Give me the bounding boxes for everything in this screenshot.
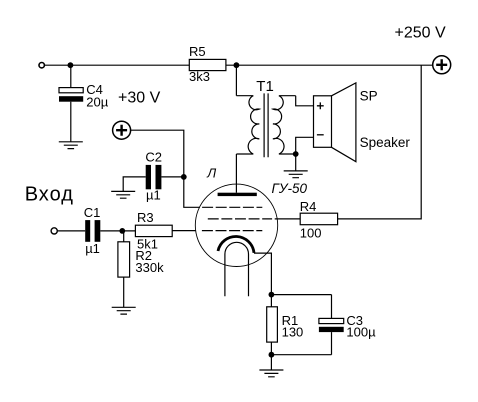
ground (cathode) — [259, 370, 283, 377]
node secondary/ground — [293, 151, 299, 157]
speaker SP body — [314, 96, 332, 148]
ground (C4) — [59, 142, 83, 149]
anode plate — [218, 193, 257, 196]
resistor R5 — [189, 59, 226, 70]
speaker horn — [332, 83, 356, 162]
wire secondary bottom node — [296, 137, 314, 154]
wire to ground (cathode) — [270, 355, 272, 370]
speaker - mark — [317, 134, 324, 136]
svg-text:Speaker: Speaker — [360, 135, 411, 150]
terminal +30V — [113, 121, 131, 139]
svg-text:Л: Л — [206, 165, 216, 180]
wire C4 branch — [70, 65, 72, 87]
wire secondary top to speaker + — [296, 96, 314, 106]
node C2 / grid1 — [181, 174, 187, 180]
svg-text:+30 V: +30 V — [118, 90, 161, 107]
svg-text:R5: R5 — [189, 44, 206, 59]
wire input to C1 — [58, 230, 86, 232]
svg-text:µ1: µ1 — [146, 188, 161, 203]
svg-text:20µ: 20µ — [86, 95, 108, 110]
wire grid2 to R4 — [275, 218, 301, 220]
heater filament — [225, 242, 249, 296]
speaker + mark — [317, 102, 324, 109]
terminal input — [51, 228, 57, 234]
svg-text:T1: T1 — [256, 78, 274, 95]
transformer T1 secondary winding — [273, 96, 296, 154]
grid row 3 (dashed) — [202, 230, 262, 232]
wire rail to primary — [235, 65, 237, 96]
wire cathode node to C3 — [271, 294, 331, 296]
grid row 1 (dashed) — [202, 206, 262, 208]
wire anode lead — [235, 154, 237, 193]
svg-text:330k: 330k — [135, 260, 164, 275]
capacitor C3 (electrolytic) — [331, 295, 333, 319]
terminal input-left (top rail left) — [39, 62, 44, 67]
node R1/C3 bottom — [269, 352, 275, 358]
wire C2 left to ground — [123, 177, 146, 192]
svg-text:R3: R3 — [137, 210, 154, 225]
node C1/R2/R3 — [119, 228, 125, 234]
wire C1 to R3 — [100, 230, 135, 232]
ground (C2) — [111, 191, 135, 198]
wire cathode lead — [254, 253, 271, 295]
wire top rail left segment — [45, 64, 190, 66]
cathode arc — [218, 236, 254, 252]
wire C4 to ground — [70, 102, 72, 142]
node cathode/R1/C3 top — [269, 292, 275, 298]
svg-text:100: 100 — [300, 226, 322, 241]
svg-text:C1: C1 — [84, 205, 101, 220]
capacitor C4 (electrolytic) — [59, 88, 83, 93]
wire top rail right segment — [226, 64, 433, 66]
transformer T1 primary winding — [236, 96, 259, 154]
svg-text:Вход: Вход — [25, 183, 74, 205]
ground (speaker) — [284, 171, 308, 178]
wire C2 right to node — [161, 176, 183, 178]
svg-text:C2: C2 — [145, 149, 162, 164]
svg-text:3k3: 3k3 — [189, 69, 210, 84]
svg-text:µ1: µ1 — [85, 241, 100, 256]
svg-text:R4: R4 — [300, 199, 317, 214]
wire R3 to tube grid3 — [172, 230, 196, 232]
capacitor C1 — [85, 220, 90, 242]
transformer T1 core — [264, 93, 268, 157]
node top-rail / transformer junction — [234, 62, 240, 68]
wire bottom node to C3 — [271, 354, 331, 356]
wire grid1 lead — [184, 177, 200, 207]
resistor R3 — [135, 225, 172, 236]
resistor R2 — [118, 242, 130, 277]
resistor R4 — [300, 213, 337, 225]
wire +30V to grid node — [131, 130, 184, 177]
terminal +250V — [433, 56, 451, 74]
svg-text:ГУ-50: ГУ-50 — [272, 181, 308, 196]
tube ГУ-50 envelope — [195, 184, 277, 266]
wire R2 to ground — [123, 277, 125, 307]
wire R4 to +250 rail — [338, 65, 422, 219]
ground (R2) — [112, 307, 136, 314]
svg-text:+250 V: +250 V — [395, 24, 446, 41]
node top-rail / C4 junction — [68, 62, 74, 68]
wire to ground (speaker) — [295, 154, 297, 171]
svg-text:100µ: 100µ — [346, 325, 376, 340]
capacitor C2 — [146, 165, 151, 189]
svg-text:130: 130 — [282, 325, 304, 340]
svg-text:SP: SP — [360, 88, 378, 103]
resistor R1 — [267, 307, 278, 342]
grid row 2 (dashed) — [208, 218, 272, 220]
